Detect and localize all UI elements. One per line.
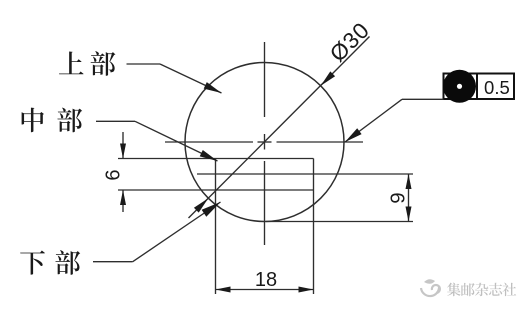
label upper part char 上 [59,51,84,74]
label middle part char 中 [22,108,44,133]
band left edge / extension line [215,159,217,295]
vertical centerline [264,42,266,245]
leader 中部 [96,121,218,161]
Ø30 arrow upper [321,71,335,85]
dim 6 arrow top [120,144,126,159]
frame leader [345,99,444,142]
label lower part char 部 [55,250,80,275]
dim 6 line bottom stub [122,190,124,212]
label middle part char 部 [57,108,82,133]
leader 中部 arrow [200,150,218,161]
leader 上部 arrow [204,82,222,93]
label lower part char 下 [20,251,45,275]
dim 9 arrow top [406,174,412,189]
tolerance frame box [444,74,515,100]
horizontal centerline [165,141,363,143]
dim 6 arrow bottom [120,190,126,205]
band top line [118,158,314,160]
band right edge / extension line [313,159,315,295]
label upper part char 部 [91,51,116,76]
leader 下部 [93,202,221,262]
dim 18 arrow left [216,287,231,293]
dim 6 line top stub [122,132,124,159]
tolerance symbol center dot [457,84,462,89]
dim 18 arrow right [299,287,314,293]
svg-text:9: 9 [387,192,410,203]
circle bottom extension line for 9 [266,221,413,223]
band mid line (extension for 9) [197,173,413,175]
svg-text:6: 6 [103,169,125,180]
Ø30 dimension line [189,37,370,219]
leader 上部 [127,64,222,93]
svg-text:18: 18 [255,269,277,291]
frame leader arrow [345,128,362,142]
dim 9 arrow bottom [406,207,412,222]
tolerance symbol filled circle [443,70,476,103]
band bottom line [118,189,314,191]
watermark text 集邮杂志社 [447,283,516,297]
circle outline Ø30 [185,63,344,222]
dim 18 line [216,289,314,291]
Ø30 arrow lower [194,198,208,212]
watermark logo [421,279,440,296]
svg-text:0.5: 0.5 [484,77,510,98]
dim 9 line [408,174,410,222]
leader 下部 arrow [202,202,221,217]
tolerance frame divider [476,74,478,100]
